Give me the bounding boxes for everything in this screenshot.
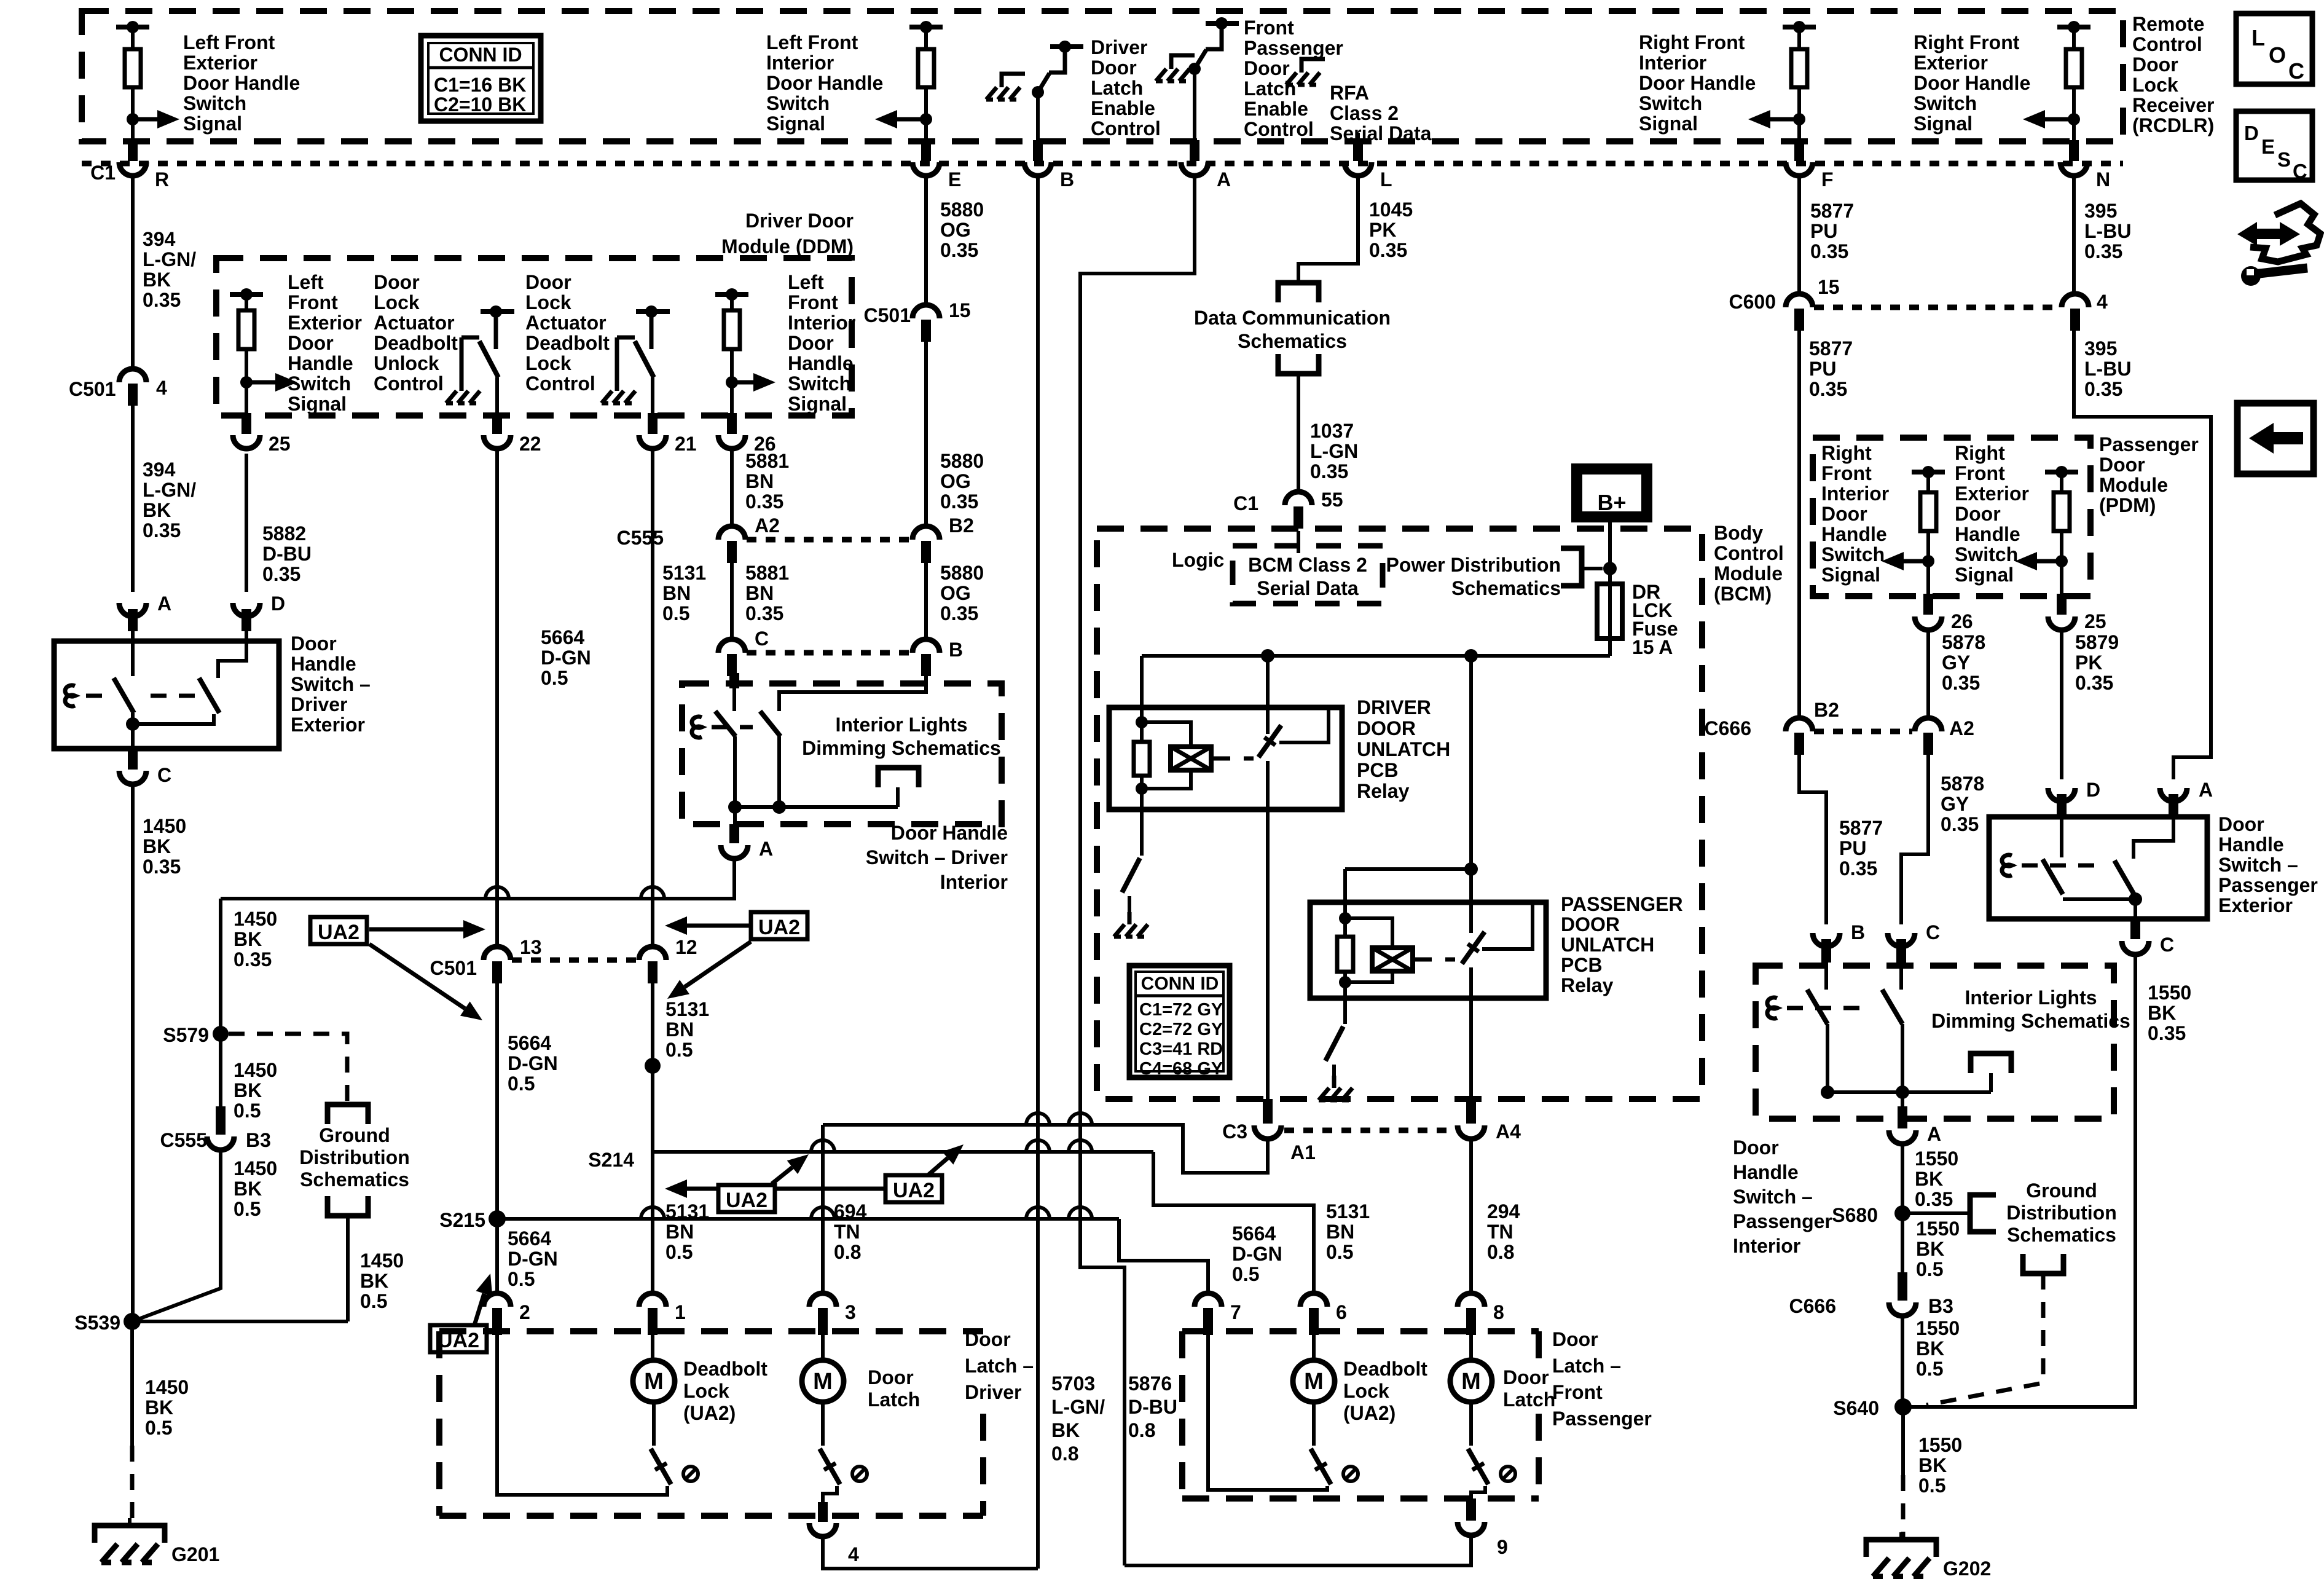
fuse DR LCK 15A [1597, 584, 1622, 639]
svg-text:Driver: Driver [1091, 36, 1148, 58]
svg-text:S640: S640 [1833, 1397, 1879, 1419]
svg-text:5131: 5131 [1326, 1200, 1370, 1223]
svg-text:15: 15 [1818, 276, 1840, 298]
svg-text:Control: Control [1091, 117, 1161, 140]
svg-text:Exterior: Exterior [183, 52, 257, 74]
svg-text:0.5: 0.5 [234, 1198, 261, 1220]
connector line C-B [747, 650, 912, 656]
svg-text:BN: BN [745, 582, 774, 604]
wire 5879 PK from PDM 25 to exterior switch D [2060, 629, 2063, 779]
symbol not-in-run (driver door latch) [852, 1467, 867, 1481]
wire fuse to relay rail [1608, 639, 1612, 656]
svg-text:0.35: 0.35 [262, 563, 300, 585]
svg-text:Control: Control [374, 372, 444, 395]
svg-text:5664: 5664 [508, 1227, 551, 1250]
bus rail B+ inside BCM [1142, 649, 1610, 734]
svg-text:Front: Front [1955, 462, 2005, 484]
svg-text:0.35: 0.35 [143, 856, 181, 878]
svg-text:5131: 5131 [665, 998, 709, 1020]
wire into door handle switch driver exterior pin D [245, 629, 248, 641]
svg-text:Receiver: Receiver [2132, 94, 2214, 116]
svg-text:BK: BK [360, 1270, 388, 1292]
svg-text:1037: 1037 [1310, 420, 1354, 442]
wire 5878 GY from C666 A2 to interior switch C [1901, 752, 1928, 924]
svg-text:UA2: UA2 [893, 1179, 935, 1202]
svg-text:12: 12 [675, 936, 697, 958]
svg-text:0.5: 0.5 [508, 1073, 535, 1095]
bus S214 to passenger deadbolt (5131) [653, 1140, 1314, 1293]
svg-text:OG: OG [940, 582, 971, 604]
svg-text:394: 394 [143, 459, 176, 481]
svg-text:Handle: Handle [788, 352, 854, 374]
svg-text:Interior: Interior [788, 312, 855, 334]
svg-text:(PDM): (PDM) [2099, 494, 2156, 516]
svg-text:Control: Control [2132, 33, 2202, 55]
connector line C3 A1-A4 [1284, 1128, 1455, 1133]
svg-text:UNLATCH: UNLATCH [1357, 738, 1450, 760]
svg-text:0.5: 0.5 [234, 1100, 261, 1122]
svg-text:Door Handle: Door Handle [1914, 72, 2030, 94]
svg-text:0.8: 0.8 [1487, 1241, 1514, 1263]
connector D (door handle switch driver exterior) [233, 593, 285, 631]
svg-text:Exterior: Exterior [288, 312, 362, 334]
svg-text:5131: 5131 [665, 1200, 709, 1223]
svg-text:DOOR: DOOR [1561, 913, 1620, 935]
reference box BCM Class 2 Serial Data [1233, 546, 1383, 604]
svg-text:BK: BK [2148, 1002, 2176, 1024]
ground (front passenger door latch enable switch) [1301, 59, 1325, 73]
connector C501 pin 4 [69, 369, 167, 406]
svg-text:0.35: 0.35 [1941, 813, 1979, 835]
svg-text:A: A [1927, 1123, 1941, 1145]
svg-text:0.8: 0.8 [1128, 1419, 1155, 1441]
svg-text:B3: B3 [1928, 1295, 1953, 1317]
connector door latch driver pin 1 [639, 1293, 686, 1335]
splice S215 [489, 1210, 506, 1227]
svg-text:1: 1 [675, 1301, 686, 1323]
svg-text:Left Front: Left Front [183, 31, 275, 53]
wire B+ to fuse [1608, 517, 1612, 584]
svg-text:B: B [1851, 921, 1865, 943]
svg-text:Remote: Remote [2132, 13, 2204, 35]
svg-text:D-BU: D-BU [262, 543, 312, 565]
svg-text:C3: C3 [1222, 1120, 1247, 1143]
svg-text:M: M [644, 1369, 664, 1395]
svg-text:C555: C555 [160, 1129, 208, 1151]
svg-text:PCB: PCB [1357, 759, 1399, 781]
svg-text:Control: Control [525, 372, 595, 395]
connector C1 pin N [2060, 140, 2110, 191]
symbol not-in-run (passenger door latch) [1501, 1467, 1515, 1481]
wire 5664 D-GN from C501 13 to S215 [495, 981, 499, 1219]
relay box driver door unlatch PCB relay [1109, 707, 1342, 809]
svg-text:1550: 1550 [1916, 1317, 1960, 1339]
wire 1450 BK S579 to C555 B3 [219, 1034, 222, 1128]
connector A (driver interior switch) [721, 807, 773, 860]
svg-text:0.8: 0.8 [834, 1241, 861, 1263]
svg-text:0.5: 0.5 [145, 1417, 172, 1439]
svg-text:4: 4 [848, 1543, 859, 1565]
svg-text:5664: 5664 [508, 1032, 551, 1054]
svg-text:0.5: 0.5 [1916, 1258, 1943, 1280]
svg-text:Schematics: Schematics [300, 1168, 409, 1191]
svg-text:Class 2: Class 2 [1330, 102, 1399, 124]
svg-text:Latch –: Latch – [965, 1355, 1034, 1377]
svg-text:Lock: Lock [374, 291, 420, 313]
dashed wire ground distribution to S640 [1926, 1274, 2043, 1405]
svg-text:Actuator: Actuator [374, 312, 455, 334]
svg-text:A: A [1217, 168, 1231, 191]
motor door latch passenger [1450, 1333, 1492, 1498]
connector A (door handle switch driver exterior) [119, 593, 171, 631]
svg-text:Switch: Switch [288, 372, 351, 395]
wire 5877 PU from C600 to C666 B2 [1797, 328, 1801, 718]
connector door latch driver pin 2 [484, 1293, 530, 1335]
dashed actuator link (driver relay) [1213, 757, 1254, 761]
svg-text:Left: Left [288, 271, 324, 293]
svg-text:Front: Front [1552, 1381, 1603, 1403]
resistor right front interior door handle switch (RCDLR) [1783, 21, 1816, 141]
component box RCDLR (Remote Control Door Lock Receiver) [82, 11, 2123, 141]
svg-text:0.35: 0.35 [2075, 672, 2113, 694]
svg-text:B2: B2 [949, 514, 974, 537]
svg-text:394: 394 [143, 228, 176, 250]
wire 1450 BK 0.5 from bracket to S539 [346, 1216, 350, 1321]
connector C666 pin A2 [1915, 717, 1974, 755]
svg-text:N: N [2096, 168, 2110, 191]
svg-text:Signal: Signal [1955, 564, 2014, 586]
svg-text:M: M [1304, 1369, 1324, 1395]
svg-text:4: 4 [2097, 291, 2108, 313]
svg-text:0.5: 0.5 [360, 1290, 387, 1312]
offpage bracket data communication (upper) [1278, 283, 1319, 302]
wire 1550 BK from C666 B3 to S640 [1901, 1315, 1904, 1407]
svg-text:OG: OG [940, 219, 971, 241]
connector door latch front passenger pin 9 [1458, 1498, 1508, 1558]
svg-text:694: 694 [834, 1200, 867, 1223]
wire 5877 PU from C666 B2 to interior switch B [1799, 752, 1826, 924]
motor deadbolt lock passenger (UA2) [1208, 1333, 1335, 1490]
table CONN ID (BCM) [1129, 966, 1230, 1079]
svg-text:Ground: Ground [319, 1124, 390, 1146]
svg-text:21: 21 [675, 433, 697, 455]
connector PDM pin 26 [1915, 594, 1973, 632]
connector DDM pin 26 [718, 413, 776, 455]
svg-text:Power Distribution: Power Distribution [1386, 554, 1561, 576]
svg-text:0.5: 0.5 [665, 1241, 693, 1263]
svg-text:BN: BN [665, 1221, 694, 1243]
svg-text:0.5: 0.5 [1326, 1241, 1353, 1263]
svg-text:Switch: Switch [788, 372, 851, 395]
svg-text:A2: A2 [755, 514, 780, 537]
svg-text:Dimming Schematics: Dimming Schematics [1931, 1010, 2130, 1032]
svg-text:UA2: UA2 [758, 916, 800, 939]
svg-text:CONN ID: CONN ID [439, 44, 522, 66]
svg-text:Serial Data: Serial Data [1330, 122, 1432, 144]
svg-text:5878: 5878 [1942, 631, 1985, 653]
svg-text:D: D [271, 593, 285, 615]
connector line C666 B2-A2 [1814, 729, 1912, 734]
svg-text:BK: BK [234, 1178, 262, 1200]
resistor right front exterior door handle switch (RCDLR) [2057, 21, 2090, 141]
svg-text:5664: 5664 [541, 626, 584, 648]
wire 5880 OG from C1 E to C501 15 [924, 176, 928, 305]
arrow right front exterior door handle switch signal (RCDLR) [2045, 117, 2074, 122]
svg-text:UNLATCH: UNLATCH [1561, 934, 1654, 956]
component box door handle switch - passenger exterior [1989, 817, 2207, 919]
svg-text:Module: Module [1714, 562, 1783, 585]
svg-text:Switch: Switch [183, 92, 246, 114]
svg-text:Distribution: Distribution [299, 1146, 410, 1168]
svg-text:5131: 5131 [662, 562, 706, 584]
ground distribution reference (right) [1902, 1195, 1996, 1232]
connector C (passenger exterior switch) [2122, 919, 2174, 956]
svg-text:Handle: Handle [288, 352, 353, 374]
connector C501 pin 13 [430, 936, 542, 983]
wire 1550 BK from exterior switch C to S640 [1903, 954, 2135, 1407]
wire passenger relay output to A4 [1469, 998, 1473, 1099]
svg-text:Door: Door [2218, 813, 2264, 835]
svg-text:C: C [2288, 58, 2304, 84]
connector A (passenger interior switch) [1889, 1092, 1941, 1145]
svg-text:B: B [949, 639, 963, 661]
svg-text:0.5: 0.5 [1918, 1475, 1945, 1497]
svg-text:PASSENGER: PASSENGER [1561, 893, 1683, 915]
svg-text:Latch: Latch [1091, 77, 1143, 99]
relay coil (driver door unlatch) [1142, 722, 1211, 789]
svg-text:Door: Door [965, 1328, 1011, 1350]
svg-text:Handle: Handle [291, 653, 356, 675]
wire 5876 D-BU from C1 A to passenger latch return [1080, 176, 1195, 1565]
svg-text:Module (DDM): Module (DDM) [721, 235, 854, 258]
motor door latch driver [802, 1333, 844, 1516]
svg-text:(UA2): (UA2) [1343, 1402, 1396, 1424]
svg-text:C2=72 GY: C2=72 GY [1139, 1020, 1223, 1039]
svg-text:D: D [2244, 122, 2259, 144]
connector C1 pin F [1786, 140, 1834, 191]
svg-text:Interior Lights: Interior Lights [835, 714, 967, 736]
switch driver door latch enable control [1032, 41, 1083, 141]
svg-text:Driver Door: Driver Door [745, 210, 854, 232]
svg-text:L: L [2251, 25, 2265, 50]
svg-text:S680: S680 [1832, 1204, 1878, 1226]
svg-text:Lock: Lock [1343, 1380, 1389, 1402]
connector BCM C1 pin 55 [1233, 489, 1343, 529]
svg-text:0.35: 0.35 [234, 948, 272, 971]
svg-text:Handle: Handle [1733, 1161, 1799, 1183]
connector C1 pin E [913, 140, 961, 191]
svg-text:Passenger: Passenger [2099, 433, 2199, 455]
svg-text:0.5: 0.5 [508, 1268, 535, 1290]
relay switch (driver door unlatch) [1258, 707, 1329, 809]
svg-text:1550: 1550 [1916, 1218, 1960, 1240]
connector C666 pin B3 [1789, 1272, 1953, 1317]
svg-text:PU: PU [1809, 358, 1836, 380]
svg-text:Door Handle: Door Handle [891, 822, 1008, 844]
svg-text:Control: Control [1244, 118, 1314, 140]
wire 1450 BK from switch C to S539 [131, 786, 135, 1321]
bus rail passenger relay feed [1345, 656, 1478, 933]
svg-text:B+: B+ [1597, 490, 1626, 515]
connector door latch driver pin 3 [809, 1293, 856, 1335]
connector C1 pin B [1024, 140, 1074, 191]
svg-text:L-GN/: L-GN/ [143, 248, 196, 270]
arrow DDM left front interior switch signal [732, 380, 753, 385]
svg-text:(UA2): (UA2) [683, 1402, 736, 1424]
svg-text:S579: S579 [163, 1024, 209, 1046]
svg-text:Handle: Handle [1821, 523, 1887, 545]
svg-text:Deadbolt: Deadbolt [1343, 1358, 1427, 1380]
svg-text:Lock: Lock [525, 352, 571, 374]
svg-text:BK: BK [1916, 1238, 1944, 1260]
wire RFA class 2 serial data inside RCDLR [1356, 133, 1360, 141]
svg-text:0.35: 0.35 [1942, 672, 1980, 694]
resistor (passenger relay) [1337, 902, 1353, 998]
splice S214 [645, 1058, 661, 1074]
splice S680 [1894, 1205, 1910, 1221]
svg-text:G202: G202 [1943, 1557, 1991, 1579]
svg-text:5881: 5881 [745, 562, 789, 584]
svg-text:Lock: Lock [2132, 74, 2178, 96]
svg-text:BN: BN [1326, 1221, 1354, 1243]
svg-text:O: O [2269, 42, 2286, 68]
svg-text:Switch: Switch [766, 92, 830, 114]
table CONN ID (RCDLR) [421, 36, 541, 121]
svg-text:PK: PK [2075, 652, 2102, 674]
svg-text:0.8: 0.8 [1051, 1443, 1078, 1465]
svg-text:BN: BN [662, 582, 691, 604]
svg-text:395: 395 [2084, 200, 2117, 222]
svg-text:GY: GY [1941, 793, 1969, 815]
arrow left front interior door handle switch signal [897, 117, 926, 122]
svg-text:BK: BK [234, 1079, 262, 1101]
svg-text:Signal: Signal [288, 393, 347, 415]
svg-text:Switch: Switch [1955, 543, 2018, 565]
svg-text:Enable: Enable [1244, 98, 1308, 120]
svg-text:Front: Front [788, 291, 838, 313]
svg-text:L-GN/: L-GN/ [143, 479, 196, 501]
wire driver relay output to A1 [1266, 809, 1270, 1099]
svg-text:L-GN/: L-GN/ [1051, 1396, 1105, 1418]
connector B (passenger interior switch) [1813, 921, 1865, 963]
svg-text:6: 6 [1336, 1301, 1347, 1323]
ground (DDM deadbolt unlock switch) [460, 379, 464, 391]
power node B+ [1577, 469, 1647, 517]
svg-text:Handle: Handle [2218, 833, 2284, 856]
svg-text:Actuator: Actuator [525, 312, 607, 334]
svg-text:G201: G201 [171, 1543, 219, 1565]
svg-text:C666: C666 [1789, 1295, 1837, 1317]
svg-text:5880: 5880 [940, 562, 984, 584]
connector C (passenger interior switch PDM side) [1888, 921, 1940, 963]
svg-text:22: 22 [519, 433, 541, 455]
svg-text:0.5: 0.5 [541, 667, 568, 689]
svg-text:PK: PK [1369, 219, 1396, 241]
reference UA2 (S215) [430, 1274, 492, 1352]
svg-text:C2=10 BK: C2=10 BK [434, 93, 526, 116]
svg-text:1450: 1450 [360, 1250, 404, 1272]
switch door handle driver exterior (two blades) [65, 641, 246, 749]
svg-text:D-GN: D-GN [508, 1052, 558, 1074]
wire 395 L-BU from C1 N to connector 4 [2072, 176, 2076, 291]
svg-text:1450: 1450 [143, 815, 186, 837]
svg-text:OG: OG [940, 470, 971, 492]
connector door latch front passenger pin 7 [1195, 1293, 1241, 1335]
svg-text:1550: 1550 [2148, 982, 2191, 1004]
svg-text:1450: 1450 [234, 1157, 277, 1179]
svg-text:Passenger: Passenger [2218, 874, 2318, 896]
svg-text:A1: A1 [1290, 1141, 1316, 1164]
svg-text:25: 25 [269, 433, 291, 455]
svg-text:5880: 5880 [940, 450, 984, 472]
connector DDM pin 25 [233, 413, 291, 455]
connector C1 pin L [1345, 140, 1392, 191]
icon box LOC [2236, 14, 2312, 84]
dashed actuator link (passenger relay) [1415, 958, 1455, 962]
connector door latch front passenger pin 8 [1458, 1293, 1504, 1335]
arrow PDM right front exterior switch signal [2037, 559, 2062, 564]
ground (driver relay) [1128, 912, 1132, 924]
svg-text:C4=68 GY: C4=68 GY [1139, 1059, 1223, 1079]
wire 5131 BN from DDM 21 to C501 12 [651, 449, 654, 947]
svg-text:L: L [1380, 168, 1392, 191]
wire 5881 BN from DDM 26 to C555 A2 [730, 449, 734, 526]
svg-text:5882: 5882 [262, 522, 306, 545]
svg-text:D: D [2086, 779, 2100, 801]
svg-text:0.35: 0.35 [2084, 240, 2122, 262]
svg-text:4: 4 [156, 377, 167, 399]
connector C (DDM to interior switch) [718, 628, 769, 676]
svg-text:Door: Door [291, 632, 337, 655]
svg-text:55: 55 [1321, 489, 1343, 511]
svg-text:Unlock: Unlock [374, 352, 439, 374]
svg-text:D-GN: D-GN [1232, 1243, 1282, 1265]
svg-text:1550: 1550 [1915, 1148, 1958, 1170]
svg-text:0.35: 0.35 [940, 239, 978, 261]
ground switch below passenger relay [1325, 998, 1345, 1085]
svg-text:Front: Front [288, 291, 338, 313]
svg-text:D-BU: D-BU [1128, 1396, 1177, 1418]
connector C555 pin B3 [160, 1106, 271, 1151]
svg-text:Deadbolt: Deadbolt [683, 1358, 767, 1380]
svg-text:Right: Right [1955, 442, 2005, 464]
module box door latch - driver [439, 1331, 983, 1516]
svg-text:3: 3 [845, 1301, 856, 1323]
svg-text:C: C [2160, 934, 2174, 956]
connector line C1 (RCDLR pins) [82, 161, 2123, 167]
relay switch (passenger door unlatch) [1462, 902, 1533, 998]
offpage bracket interior lights dimming (passenger) [1971, 1053, 2011, 1073]
ground (driver door latch enable switch) [1002, 74, 1025, 87]
svg-text:M: M [813, 1369, 833, 1395]
svg-text:GY: GY [1942, 652, 1970, 674]
connector line C501 13-12 [512, 958, 638, 963]
svg-text:Lock: Lock [683, 1380, 729, 1402]
svg-text:S539: S539 [74, 1312, 120, 1334]
connector BCM C3 pin A4 [1458, 1099, 1521, 1143]
svg-text:Passenger: Passenger [1733, 1210, 1832, 1232]
svg-text:5881: 5881 [745, 450, 789, 472]
wire 294 TN from A4 to passenger latch pin 8 [1469, 1138, 1473, 1293]
svg-text:0.35: 0.35 [143, 289, 181, 311]
connector D (passenger exterior switch) [2048, 779, 2100, 816]
svg-text:Door: Door [1552, 1328, 1598, 1350]
svg-text:0.35: 0.35 [940, 602, 978, 624]
icon box back arrow [2237, 403, 2314, 474]
svg-text:0.35: 0.35 [1839, 857, 1877, 880]
svg-text:Signal: Signal [766, 112, 825, 135]
wire 394 L-GN/BK from C1 R to C501 [131, 176, 135, 369]
